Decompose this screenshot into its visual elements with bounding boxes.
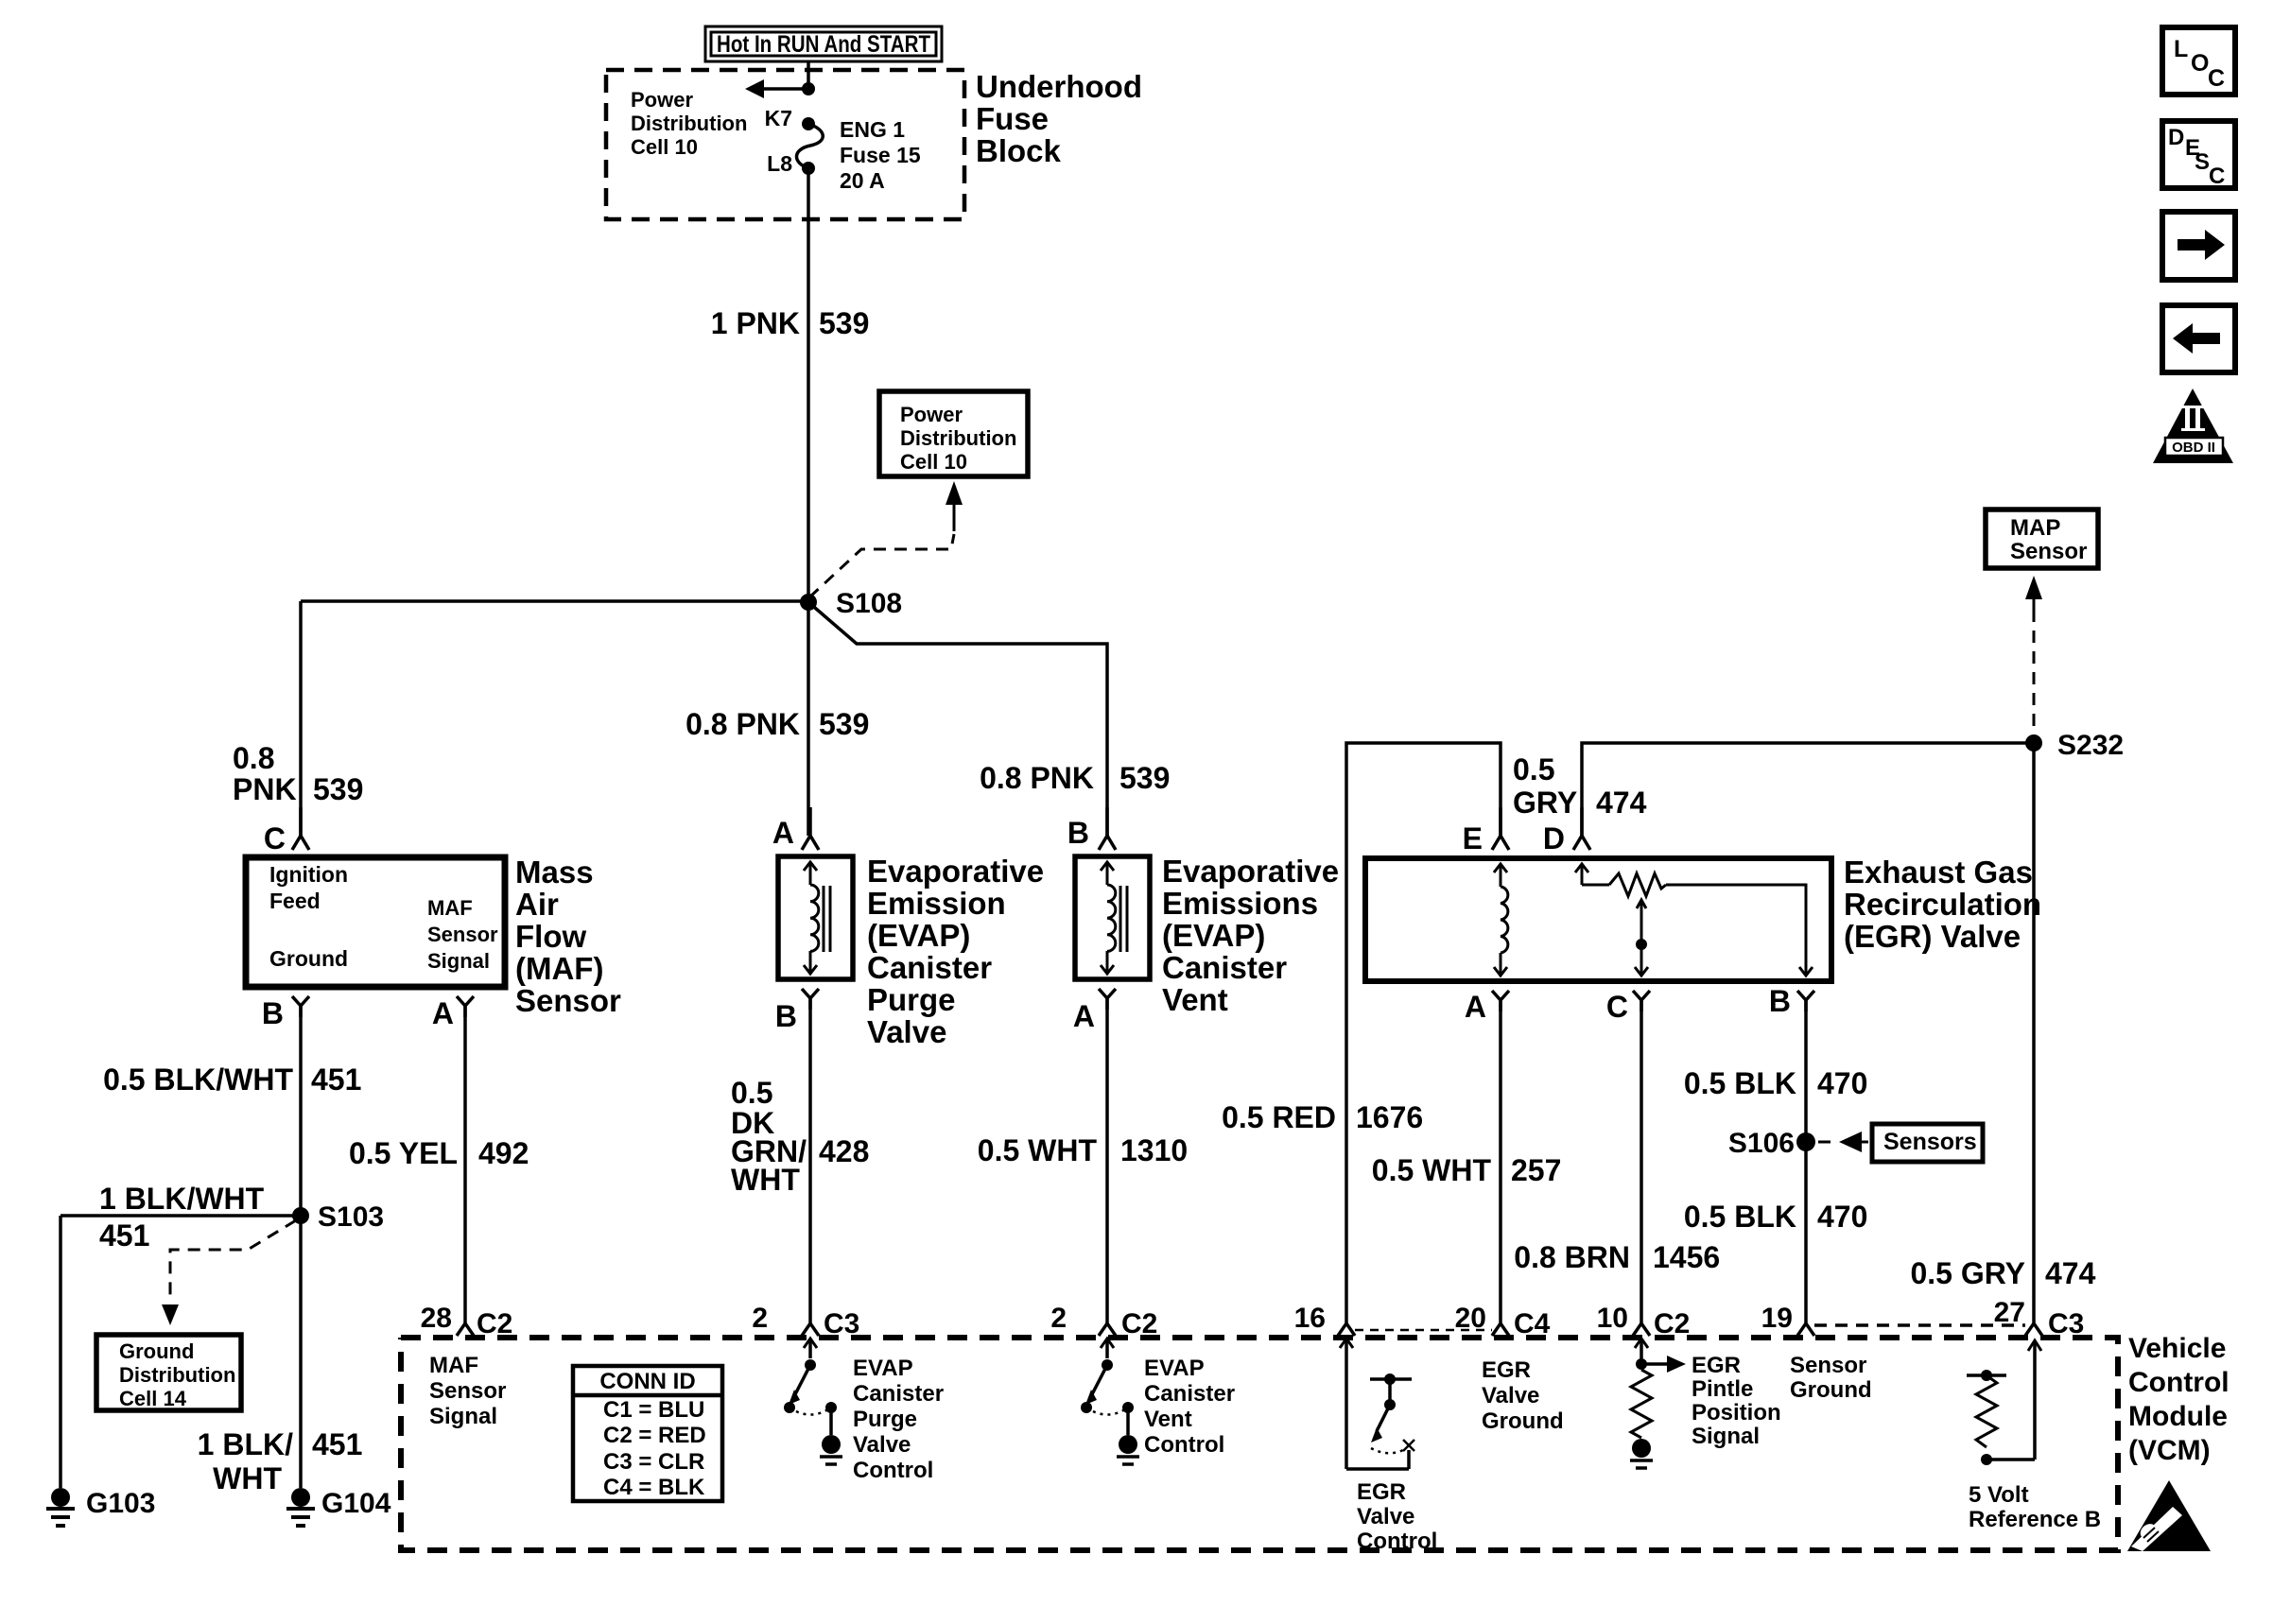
wire 0.5 WHT 257 (EGR A to VCM pin 20 C4): [1499, 1000, 1502, 1310]
svg-text:0.5 BLK: 0.5 BLK: [1684, 1200, 1796, 1234]
CONN ID table: [573, 1366, 722, 1501]
svg-text:(EVAP): (EVAP): [867, 918, 970, 953]
svg-text:Valve: Valve: [1357, 1504, 1414, 1529]
text EGR Valve Ground: [1482, 1357, 1564, 1434]
svg-text:C4: C4: [1514, 1308, 1551, 1339]
svg-text:0.5: 0.5: [731, 1076, 772, 1110]
icon right arrow box: [2162, 212, 2235, 280]
svg-text:Evaporative: Evaporative: [867, 854, 1044, 889]
pin D of EGR valve: [1543, 807, 1590, 855]
svg-text:Fuse 15: Fuse 15: [840, 143, 921, 167]
text EGR Valve Control: [1357, 1479, 1437, 1554]
VCM pin 2 C3: [752, 1303, 859, 1339]
svg-text:27: 27: [1994, 1297, 2025, 1328]
svg-text:Power: Power: [631, 88, 693, 112]
wire 0.5 GRY 474 (EGR pin D to S232): [1582, 743, 2034, 836]
label 0.5 RED 1676: [1222, 1100, 1423, 1134]
svg-text:Emissions: Emissions: [1162, 886, 1318, 921]
label 0.8 PNK 539 (MAF branch): [233, 741, 363, 806]
svg-text:EGR: EGR: [1357, 1479, 1406, 1505]
svg-text:0.8 PNK: 0.8 PNK: [685, 707, 800, 741]
svg-text:PNK: PNK: [233, 772, 297, 806]
svg-text:Canister: Canister: [853, 1381, 944, 1407]
wire 1 PNK 539 (fuse to S108): [807, 168, 810, 602]
svg-text:Position: Position: [1692, 1400, 1781, 1425]
svg-text:EGR: EGR: [1692, 1353, 1741, 1378]
svg-text:(VCM): (VCM): [2128, 1435, 2211, 1466]
wire 0.5 GRY 474 (S232 to VCM pin 27 C3): [2032, 743, 2036, 1310]
wire 1 BLK/WHT 451 (S103 to G103): [61, 1216, 301, 1488]
svg-text:1 BLK/WHT: 1 BLK/WHT: [99, 1182, 265, 1216]
svg-text:Control: Control: [2128, 1367, 2230, 1398]
EGR pintle position signal resistor: [1630, 1339, 1686, 1468]
svg-text:0.8: 0.8: [233, 741, 274, 775]
box Sensors: [1872, 1124, 1983, 1162]
svg-text:Air: Air: [515, 887, 559, 922]
svg-text:0.5 BLK: 0.5 BLK: [1684, 1066, 1796, 1100]
svg-text:470: 470: [1817, 1200, 1867, 1234]
svg-text:10: 10: [1597, 1303, 1628, 1334]
svg-text:0.5 RED: 0.5 RED: [1222, 1100, 1336, 1134]
svg-text:MAF: MAF: [429, 1353, 478, 1378]
label 0.5 BLK 470 (lower): [1684, 1200, 1868, 1234]
svg-text:474: 474: [2045, 1256, 2096, 1290]
svg-text:D: D: [1543, 821, 1565, 855]
svg-text:0.5 BLK/WHT: 0.5 BLK/WHT: [103, 1063, 293, 1097]
svg-text:C1 = BLU: C1 = BLU: [603, 1397, 704, 1423]
svg-text:539: 539: [819, 306, 869, 340]
svg-text:Sensor: Sensor: [2010, 539, 2087, 564]
text 5 Volt Reference B: [1969, 1482, 2101, 1532]
svg-text:(MAF): (MAF): [515, 951, 603, 986]
ground G103: [46, 1488, 155, 1526]
svg-text:C3: C3: [824, 1308, 859, 1339]
dashed link pin 16 to pin 20: [1355, 1329, 1492, 1332]
icon DESC box: [2162, 121, 2235, 189]
box EVAP canister vent valve solenoid: [1075, 856, 1150, 979]
svg-text:451: 451: [311, 1063, 361, 1097]
svg-text:WHT: WHT: [213, 1461, 282, 1495]
svg-text:L: L: [2174, 36, 2188, 62]
svg-text:OBD II: OBD II: [2172, 440, 2215, 456]
svg-text:Valve: Valve: [853, 1432, 911, 1458]
svg-text:1310: 1310: [1120, 1133, 1188, 1167]
svg-text:S103: S103: [318, 1201, 384, 1233]
text EGR Pintle Position Signal: [1692, 1353, 1781, 1449]
svg-text:1456: 1456: [1653, 1240, 1720, 1274]
svg-text:EGR: EGR: [1482, 1357, 1531, 1383]
vehicle control module dashed box: [401, 1338, 2118, 1550]
svg-text:MAP: MAP: [2010, 515, 2060, 541]
label 0.5 BLK/WHT 451: [103, 1063, 361, 1097]
VCM pin 28 C2: [421, 1303, 513, 1339]
box MAP Sensor: [1986, 510, 2098, 568]
svg-text:Sensors: Sensors: [1883, 1129, 1977, 1155]
svg-text:Cell 14: Cell 14: [119, 1387, 187, 1410]
text EVAP Canister Vent Control: [1144, 1356, 1235, 1458]
svg-text:Ground: Ground: [269, 946, 348, 971]
dashed reference S106 to Sensors: [1818, 1132, 1868, 1152]
svg-text:0.8 BRN: 0.8 BRN: [1514, 1240, 1630, 1274]
svg-text:B: B: [775, 999, 797, 1033]
svg-text:Vent: Vent: [1162, 982, 1228, 1017]
svg-text:A: A: [772, 816, 794, 850]
svg-text:Canister: Canister: [1162, 950, 1287, 985]
wire 0.5 RED 1676 (VCM pin 16 to EGR pin E): [1346, 743, 1501, 1310]
box Power Distribution Cell 10: [879, 391, 1028, 476]
label 0.8 BRN 1456: [1514, 1240, 1720, 1274]
svg-text:0.5 YEL: 0.5 YEL: [349, 1136, 458, 1170]
text Power Distribution Cell 10 (fuse block): [631, 88, 747, 159]
svg-text:Cell 10: Cell 10: [900, 450, 967, 474]
svg-text:Ignition: Ignition: [269, 862, 348, 887]
svg-text:A: A: [432, 996, 454, 1030]
svg-text:Sensor: Sensor: [429, 1378, 506, 1404]
wire 0.8 PNK 539 (S108 branch to EVAP vent pin B): [808, 602, 1107, 836]
svg-text:Purge: Purge: [867, 982, 956, 1017]
svg-text:L8: L8: [767, 151, 792, 176]
box Mass Air Flow MAF Sensor: [246, 857, 505, 987]
svg-text:GRY: GRY: [1513, 786, 1577, 820]
svg-text:Canister: Canister: [867, 950, 992, 985]
svg-text:Fuse: Fuse: [976, 101, 1049, 136]
pin B of EGR valve: [1769, 984, 1814, 1018]
dashed link pin 19 to pin 27: [1814, 1323, 2025, 1327]
label Evaporative Emission (EVAP) Canister Purge Valve: [867, 854, 1044, 1049]
svg-text:S106: S106: [1728, 1128, 1795, 1159]
label 1 BLK/WHT 451 (left): [99, 1182, 265, 1253]
svg-text:C3: C3: [2048, 1308, 2084, 1339]
svg-text:2: 2: [752, 1303, 768, 1334]
svg-text:20 A: 20 A: [840, 168, 885, 193]
svg-text:539: 539: [819, 707, 869, 741]
svg-text:428: 428: [819, 1134, 869, 1168]
svg-text:1 BLK/: 1 BLK/: [198, 1427, 293, 1461]
svg-text:Underhood: Underhood: [976, 69, 1142, 104]
arrow to Power Distribution (left): [745, 79, 808, 98]
VCM pin 16: [1294, 1303, 1355, 1336]
wire 0.8 PNK 539 down to MAF pin C: [299, 601, 303, 836]
svg-text:WHT: WHT: [731, 1163, 800, 1197]
junction in fuse block: [802, 82, 815, 95]
label 0.5 GRY 474 (bottom): [1910, 1256, 2095, 1290]
svg-text:Valve: Valve: [1482, 1383, 1539, 1408]
svg-text:Canister: Canister: [1144, 1381, 1235, 1407]
pin C of MAF sensor: [264, 807, 309, 855]
pin A of MAF sensor: [432, 996, 474, 1030]
label 0.5 BLK 470 (upper): [1684, 1066, 1868, 1100]
label Evaporative Emissions (EVAP) Canister Vent: [1162, 854, 1339, 1017]
svg-text:0.5 GRY: 0.5 GRY: [1910, 1256, 2025, 1290]
svg-text:C: C: [264, 821, 286, 855]
svg-text:Module: Module: [2128, 1401, 2228, 1432]
terminal L8: [767, 151, 815, 176]
pin E of EGR valve: [1463, 807, 1509, 855]
svg-text:Distribution: Distribution: [631, 112, 747, 135]
svg-text:Distribution: Distribution: [900, 426, 1016, 450]
svg-text:1676: 1676: [1356, 1100, 1423, 1134]
VCM pin 27 C3: [1994, 1297, 2085, 1339]
dashed reference S103 to Ground Distribution Cell 14: [162, 1220, 296, 1325]
svg-text:0.8 PNK: 0.8 PNK: [980, 761, 1094, 795]
pin B of EVAP vent valve: [1067, 807, 1116, 850]
svg-text:Ground: Ground: [1790, 1377, 1872, 1403]
svg-text:Control: Control: [853, 1458, 933, 1483]
svg-text:451: 451: [99, 1218, 149, 1253]
EGR pintle potentiometer (resistor inside EGR box): [1575, 864, 1813, 976]
svg-text:K7: K7: [765, 106, 792, 130]
label 1 BLK/WHT 451 (lower): [198, 1427, 363, 1495]
svg-text:19: 19: [1761, 1303, 1793, 1334]
svg-text:Recirculation: Recirculation: [1844, 887, 2041, 922]
text EVAP Canister Purge Valve Control: [853, 1356, 944, 1483]
svg-text:A: A: [1073, 999, 1095, 1033]
svg-text:451: 451: [312, 1427, 362, 1461]
text MAF Sensor Signal (VCM): [429, 1353, 506, 1429]
svg-text:Reference B: Reference B: [1969, 1507, 2101, 1532]
svg-text:C4 = BLK: C4 = BLK: [603, 1475, 705, 1500]
svg-text:B: B: [1769, 984, 1791, 1018]
wire from Hot feed into fuse block: [807, 61, 810, 89]
underhood fuse block dashed box: [606, 70, 964, 219]
svg-text:O: O: [2191, 50, 2209, 77]
svg-text:2: 2: [1050, 1303, 1067, 1334]
svg-text:Ground: Ground: [119, 1339, 194, 1363]
svg-text:(EVAP): (EVAP): [1162, 918, 1265, 953]
svg-text:Vehicle: Vehicle: [2128, 1333, 2226, 1364]
pin B of EVAP purge valve: [775, 989, 819, 1033]
label 0.8 PNK 539 (center): [685, 707, 869, 741]
svg-text:EVAP: EVAP: [1144, 1356, 1205, 1381]
label 0.5 YEL 492: [349, 1136, 529, 1170]
node label box Hot In RUN And START: [705, 26, 942, 61]
EVAP canister vent control driver: [1081, 1339, 1139, 1464]
wire 0.5 DK GRN/WHT 428 (purge B to VCM pin 2 C3): [808, 998, 812, 1310]
svg-text:Sensor: Sensor: [1790, 1353, 1866, 1378]
svg-text:B: B: [1067, 816, 1089, 850]
VCM pin 20 C4: [1455, 1303, 1551, 1339]
svg-text:EVAP: EVAP: [853, 1356, 913, 1381]
terminal K7: [765, 106, 815, 130]
svg-text:S232: S232: [2057, 730, 2124, 761]
svg-text:539: 539: [1119, 761, 1170, 795]
label 0.5 WHT 1310: [978, 1133, 1188, 1167]
svg-text:G104: G104: [321, 1488, 391, 1519]
svg-text:5 Volt: 5 Volt: [1969, 1482, 2029, 1508]
svg-text:492: 492: [478, 1136, 529, 1170]
text Sensor Ground (VCM): [1790, 1353, 1872, 1403]
pin A of EVAP vent valve: [1073, 989, 1116, 1033]
wire 0.8 BRN 1456 (EGR C to VCM pin 10 C2): [1640, 1000, 1643, 1310]
box exhaust gas recirculation EGR valve: [1365, 858, 1831, 981]
svg-text:539: 539: [313, 772, 363, 806]
svg-text:Control: Control: [1357, 1529, 1437, 1554]
wire 0.5 BLK 470 (EGR B to S106 to VCM pin 19): [1804, 1000, 1808, 1310]
svg-text:Block: Block: [976, 133, 1062, 168]
svg-text:Flow: Flow: [515, 919, 586, 954]
label 0.5 WHT 257: [1372, 1153, 1562, 1187]
svg-text:Signal: Signal: [429, 1404, 497, 1429]
splice S103: [292, 1201, 384, 1233]
svg-text:CONN ID: CONN ID: [599, 1369, 695, 1394]
label Underhood Fuse Block: [976, 69, 1142, 168]
svg-text:Control: Control: [1144, 1432, 1224, 1458]
svg-text:B: B: [262, 996, 284, 1030]
label 1 PNK 539: [711, 306, 870, 340]
svg-text:Signal: Signal: [427, 949, 490, 973]
svg-text:(EGR) Valve: (EGR) Valve: [1844, 919, 2021, 954]
icon OBD II triangle: [2153, 389, 2233, 463]
label 0.5 DK GRN/WHT 428: [731, 1076, 869, 1197]
svg-text:Evaporative: Evaporative: [1162, 854, 1339, 889]
svg-text:1 PNK: 1 PNK: [711, 306, 800, 340]
EGR valve control driver: [1340, 1339, 1414, 1469]
pin A of EVAP purge valve: [772, 807, 819, 850]
svg-text:C: C: [2209, 164, 2225, 189]
box Ground Distribution Cell 14: [96, 1335, 241, 1410]
svg-text:C3 = CLR: C3 = CLR: [603, 1449, 704, 1475]
box EVAP canister purge valve solenoid: [778, 856, 853, 979]
pin C of EGR valve: [1606, 990, 1650, 1024]
svg-text:0.5 WHT: 0.5 WHT: [978, 1133, 1098, 1167]
wire 0.8 PNK 539 to MAF (horizontal from S108): [301, 599, 808, 603]
svg-text:Sensor: Sensor: [427, 923, 498, 946]
svg-text:S108: S108: [836, 588, 902, 619]
VCM pin 19: [1761, 1303, 1814, 1336]
EVAP canister purge valve control driver: [784, 1339, 842, 1464]
wire 1 BLK/WHT 451 (S103 to G104): [299, 1216, 303, 1488]
icon left arrow box: [2162, 305, 2235, 372]
svg-text:28: 28: [421, 1303, 452, 1334]
svg-text:G103: G103: [86, 1488, 155, 1519]
dashed reference S108 to Power Distribution Cell 10: [809, 481, 963, 597]
svg-text:Ground: Ground: [1482, 1408, 1564, 1434]
pin A of EGR valve: [1465, 990, 1509, 1024]
svg-text:Feed: Feed: [269, 889, 321, 913]
label Mass Air Flow (MAF) Sensor: [515, 855, 621, 1018]
svg-text:Pintle: Pintle: [1692, 1376, 1753, 1402]
pin B of MAF sensor: [262, 996, 309, 1030]
dashed reference S232 to MAP sensor: [2025, 576, 2042, 734]
fuse ENG 1 Fuse 15 20 A: [796, 117, 920, 193]
label Vehicle Control Module (VCM): [2128, 1333, 2230, 1466]
svg-text:Mass: Mass: [515, 855, 594, 890]
svg-text:Valve: Valve: [867, 1014, 946, 1049]
label 0.5 GRY 474 (top): [1513, 752, 1647, 820]
svg-text:Power: Power: [900, 403, 963, 426]
svg-text:Sensor: Sensor: [515, 983, 621, 1018]
svg-text:474: 474: [1596, 786, 1647, 820]
VCM pin 10 C2: [1597, 1303, 1691, 1339]
label Exhaust Gas Recirculation (EGR) Valve: [1844, 855, 2041, 954]
svg-text:Distribution: Distribution: [119, 1363, 235, 1387]
svg-text:Exhaust Gas: Exhaust Gas: [1844, 855, 2033, 890]
svg-text:0.5 WHT: 0.5 WHT: [1372, 1153, 1492, 1187]
wire 0.5 WHT 1310 (vent A to VCM pin 2 C2): [1105, 998, 1109, 1310]
VCM pin 2 C2: [1050, 1303, 1157, 1339]
svg-text:257: 257: [1511, 1153, 1561, 1187]
svg-text:Cell 10: Cell 10: [631, 135, 698, 159]
svg-text:A: A: [1465, 990, 1486, 1024]
label 0.8 PNK 539 (right): [980, 761, 1170, 795]
icon LOC box: [2162, 27, 2235, 95]
svg-text:470: 470: [1817, 1066, 1867, 1100]
svg-text:D: D: [2168, 125, 2184, 150]
svg-text:S: S: [2195, 149, 2210, 175]
svg-text:Vent: Vent: [1144, 1407, 1192, 1432]
svg-text:ENG 1: ENG 1: [840, 117, 905, 142]
svg-text:MAF: MAF: [427, 896, 473, 920]
ESD sensitive device symbol: [2127, 1480, 2211, 1551]
svg-text:0.5: 0.5: [1513, 752, 1554, 786]
splice S232: [2025, 730, 2124, 761]
svg-text:Purge: Purge: [853, 1407, 917, 1432]
wire 0.5 YEL 492 (MAF A to VCM pin 28): [463, 1006, 467, 1310]
wire 0.8 PNK 539 (S108 to EVAP purge pin A): [807, 602, 810, 836]
svg-text:Emission: Emission: [867, 886, 1006, 921]
svg-text:Hot In RUN And START: Hot In RUN And START: [717, 31, 930, 58]
splice S108: [800, 588, 902, 619]
svg-text:C2: C2: [477, 1308, 512, 1339]
5 volt reference B pull-up resistor: [1967, 1340, 2041, 1465]
svg-text:C: C: [1606, 990, 1628, 1024]
EGR potentiometer wiper (pin C): [1635, 900, 1648, 976]
splice S106: [1728, 1128, 1815, 1159]
svg-text:Signal: Signal: [1692, 1424, 1760, 1449]
svg-text:C: C: [2208, 65, 2225, 92]
svg-text:C2: C2: [1654, 1308, 1690, 1339]
svg-text:C2 = RED: C2 = RED: [603, 1423, 706, 1448]
svg-text:E: E: [1463, 821, 1483, 855]
ground G104: [286, 1488, 391, 1526]
wire 0.5 BLK/WHT 451 (MAF B to S103): [299, 1006, 303, 1216]
svg-text:16: 16: [1294, 1303, 1326, 1334]
svg-text:C2: C2: [1121, 1308, 1157, 1339]
